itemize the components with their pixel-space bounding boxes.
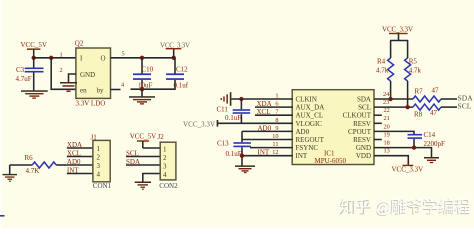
svg-text:47: 47 xyxy=(432,87,440,95)
svg-text:en: en xyxy=(80,87,87,95)
svg-text:4: 4 xyxy=(163,171,167,179)
node junction VCC3.3 drop xyxy=(172,56,176,60)
wire RESV pin21 stub xyxy=(374,122,382,124)
svg-text:24: 24 xyxy=(383,91,390,98)
svg-text:MPU-6050: MPU-6050 xyxy=(315,157,347,165)
resistor R6 xyxy=(10,154,67,175)
svg-text:C3: C3 xyxy=(16,66,25,74)
capacitor C11 xyxy=(217,99,251,123)
svg-text:5: 5 xyxy=(122,51,125,58)
svg-text:13: 13 xyxy=(384,148,390,155)
svg-text:R6: R6 xyxy=(25,154,34,162)
wire RESV pin19 stub xyxy=(374,139,382,141)
wire FSYNC pin11 xyxy=(250,147,293,149)
voltage regulator Q2 (3.3V LDO) xyxy=(75,40,111,108)
svg-text:J2: J2 xyxy=(158,133,165,141)
svg-text:2: 2 xyxy=(97,154,101,162)
node junction R5/SCL xyxy=(405,105,409,109)
svg-text:18: 18 xyxy=(384,140,390,147)
node junction C10 top xyxy=(140,56,144,60)
net label INT wire (MPU) xyxy=(242,149,293,157)
svg-text:INT: INT xyxy=(258,149,270,157)
svg-text:INT: INT xyxy=(67,166,79,174)
svg-text:SDA: SDA xyxy=(357,96,371,104)
capacitor C13 xyxy=(217,131,251,165)
svg-text:CON1: CON1 xyxy=(93,182,112,190)
svg-text:1: 1 xyxy=(60,52,63,59)
power port VCC_3.3V (top mid) xyxy=(160,41,190,58)
svg-text:R7: R7 xyxy=(415,88,424,96)
svg-text:C12: C12 xyxy=(176,65,188,73)
svg-text:4: 4 xyxy=(97,171,101,179)
svg-text:VDD: VDD xyxy=(356,152,371,160)
IC U1 MPU-6050 box xyxy=(292,90,374,165)
ground (R6) xyxy=(3,165,18,182)
svg-text:R5: R5 xyxy=(409,57,418,65)
svg-text:R4: R4 xyxy=(377,57,386,65)
svg-text:20: 20 xyxy=(384,123,390,130)
node junction C11 xyxy=(239,97,243,101)
net label XDA wire xyxy=(67,141,93,149)
svg-text:CON2: CON2 xyxy=(159,182,178,190)
svg-text:知乎 @雕爷学编程: 知乎 @雕爷学编程 xyxy=(338,198,471,216)
svg-text:RESV: RESV xyxy=(353,136,371,144)
resistor R7 xyxy=(413,87,441,103)
svg-text:CPOUT: CPOUT xyxy=(348,128,372,136)
svg-text:SCL: SCL xyxy=(458,102,472,111)
svg-text:3.3V LDO: 3.3V LDO xyxy=(76,99,106,107)
wire VDD pin13 xyxy=(374,156,408,165)
connector J1 CON1 xyxy=(91,133,112,190)
svg-text:4.7k: 4.7k xyxy=(409,67,422,75)
svg-text:0.1uf: 0.1uf xyxy=(174,82,189,90)
svg-text:2: 2 xyxy=(60,67,63,74)
svg-text:C11: C11 xyxy=(217,106,229,114)
svg-text:GND: GND xyxy=(356,144,371,152)
svg-text:XCL: XCL xyxy=(257,108,271,116)
resistor R5 xyxy=(405,41,422,108)
wire GND pin18 xyxy=(374,148,432,158)
capacitor C3 xyxy=(16,58,44,91)
net label AD0 wire (MPU) xyxy=(242,124,293,132)
node junction INT/C13 xyxy=(240,154,244,158)
svg-text:4.7k: 4.7k xyxy=(376,67,389,75)
wire pin2 to ground xyxy=(69,74,77,83)
svg-text:AUX_CL: AUX_CL xyxy=(296,112,324,120)
ground (output rail) xyxy=(129,89,155,104)
node junction R4/SDA xyxy=(388,97,392,101)
power port VCC_3.3V (VLOGIC) xyxy=(183,120,293,128)
svg-text:4.7uF: 4.7uF xyxy=(16,75,32,83)
node junction en branch xyxy=(49,56,53,60)
wire SCL pin23 xyxy=(374,106,413,108)
svg-text:19: 19 xyxy=(384,131,390,138)
node junction C14/GND xyxy=(412,145,416,149)
svg-text:47: 47 xyxy=(430,109,438,117)
net label XDA wire (MPU) xyxy=(255,100,293,108)
svg-text:C13: C13 xyxy=(217,139,229,147)
capacitor C12 xyxy=(166,58,189,90)
svg-text:VCC_3.3V: VCC_3.3V xyxy=(183,120,215,128)
svg-text:CLKIN: CLKIN xyxy=(296,96,317,104)
wire CLKIN pin1 xyxy=(231,98,292,100)
svg-text:23: 23 xyxy=(383,99,389,106)
svg-text:VCC_3.3V: VCC_3.3V xyxy=(392,165,424,173)
svg-text:XDA: XDA xyxy=(257,100,272,108)
capacitor C10 xyxy=(133,58,154,90)
resistor R8 xyxy=(413,104,441,118)
svg-text:R8: R8 xyxy=(414,111,423,119)
net label XCL wire xyxy=(67,149,93,157)
ground (CON2) xyxy=(135,182,151,190)
svg-text:4.7K: 4.7K xyxy=(26,167,40,175)
svg-text:C10: C10 xyxy=(142,65,154,73)
wire VCC to J2 pin1 xyxy=(143,147,161,149)
svg-text:C14: C14 xyxy=(424,131,436,139)
left edge white strip xyxy=(0,0,2,228)
svg-text:VCC_5V: VCC_5V xyxy=(130,133,156,141)
svg-text:AD0: AD0 xyxy=(258,124,272,132)
net label SCL wire xyxy=(126,149,161,157)
wire pin4 bottom rail xyxy=(111,89,121,91)
edge tick bottom-left xyxy=(0,215,5,217)
connector J2 CON2 xyxy=(158,133,179,190)
ground (pin18) xyxy=(424,157,439,163)
svg-text:FSYNC: FSYNC xyxy=(296,144,319,152)
ground (C3) xyxy=(21,90,48,99)
net label XCL wire (MPU) xyxy=(255,108,293,116)
power port VCC_5V (CON2) xyxy=(130,133,156,148)
power port VCC_3.3V (top right) xyxy=(382,25,413,41)
wire SDA pin24 xyxy=(374,98,413,100)
net label SDA wire (right) xyxy=(441,93,473,102)
svg-text:1: 1 xyxy=(97,145,101,153)
svg-text:VLOGIC: VLOGIC xyxy=(296,120,323,128)
net label AD0 wire xyxy=(67,158,93,166)
svg-text:O: O xyxy=(101,55,106,63)
node junction on VCC_5V xyxy=(32,56,36,60)
svg-text:1: 1 xyxy=(163,146,167,154)
power port VCC_5V xyxy=(21,41,47,58)
svg-text:REGOUT: REGOUT xyxy=(296,136,325,144)
ground (C13) xyxy=(235,165,255,173)
svg-text:INT: INT xyxy=(296,152,308,160)
svg-text:AD0: AD0 xyxy=(296,128,310,136)
svg-text:SCL: SCL xyxy=(126,149,139,157)
svg-text:RESV: RESV xyxy=(353,120,371,128)
svg-text:VCC_5V: VCC_5V xyxy=(21,41,47,49)
wire J2 pin4 to ground xyxy=(143,174,161,182)
ground (LDO pin2) xyxy=(60,82,77,92)
svg-text:AD0: AD0 xyxy=(67,158,81,166)
power port VCC_3.3V (VDD) xyxy=(392,165,424,174)
wire to en pin xyxy=(51,58,76,90)
svg-text:by: by xyxy=(97,87,105,95)
svg-text:3: 3 xyxy=(163,163,167,171)
wire pin5 output rail xyxy=(111,57,174,59)
svg-text:CLKOUT: CLKOUT xyxy=(343,112,372,120)
capacitor C14 xyxy=(408,131,446,148)
svg-text:SCL: SCL xyxy=(358,104,371,112)
svg-text:XCL: XCL xyxy=(67,149,81,157)
wire VCC_5V to LDO pin 1 xyxy=(33,57,76,59)
svg-text:XDA: XDA xyxy=(67,141,82,149)
wire CPOUT pin20 xyxy=(374,131,414,134)
resistor R4 xyxy=(376,41,394,100)
svg-text:VCC_3.3V: VCC_3.3V xyxy=(382,25,413,33)
svg-text:22: 22 xyxy=(384,107,390,114)
svg-text:SDA: SDA xyxy=(126,158,140,166)
svg-text:AUX_DA: AUX_DA xyxy=(296,104,325,112)
wire CLKOUT pin22 stub xyxy=(374,114,382,116)
net label SCL wire (right) xyxy=(441,102,472,111)
svg-text:2200pF: 2200pF xyxy=(424,140,446,148)
node junction rail/gnd xyxy=(140,87,144,91)
svg-text:21: 21 xyxy=(384,115,390,122)
svg-text:GND: GND xyxy=(80,71,95,79)
ground sideways (CLKIN) xyxy=(221,92,232,106)
svg-text:Q2: Q2 xyxy=(75,40,84,48)
svg-text:3: 3 xyxy=(97,162,101,170)
wire REGOUT pin10 xyxy=(242,139,293,141)
svg-text:2: 2 xyxy=(163,154,167,162)
net label INT wire xyxy=(67,166,93,174)
svg-text:0.1uF: 0.1uF xyxy=(225,114,241,122)
net label SDA wire xyxy=(126,158,161,166)
svg-text:0.1uF: 0.1uF xyxy=(226,150,242,158)
